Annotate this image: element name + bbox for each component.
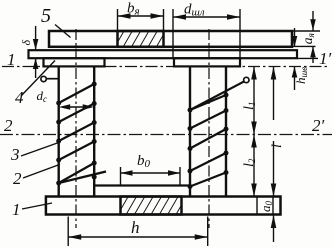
svg-text:1: 1 (7, 50, 16, 69)
svg-text:5: 5 (41, 5, 51, 27)
svg-text:1: 1 (12, 200, 21, 219)
svg-text:2: 2 (13, 169, 22, 188)
svg-text:l2: l2 (242, 158, 257, 167)
svg-text:2′: 2′ (312, 116, 325, 135)
svg-text:1′: 1′ (319, 49, 332, 68)
svg-text:2: 2 (4, 116, 13, 135)
svg-text:a0: a0 (258, 201, 274, 213)
svg-text:3: 3 (10, 145, 20, 164)
svg-text:bя: bя (127, 1, 140, 18)
svg-text:aя: aя (300, 33, 317, 44)
svg-text:h: h (131, 218, 140, 237)
svg-text:dc: dc (37, 88, 48, 104)
svg-text:l: l (270, 144, 285, 148)
svg-text:δ: δ (19, 40, 33, 46)
svg-text:l1: l1 (242, 102, 257, 110)
svg-text:dшл: dшл (184, 2, 205, 19)
svg-text:b0: b0 (137, 153, 151, 170)
svg-text:4: 4 (15, 88, 24, 107)
